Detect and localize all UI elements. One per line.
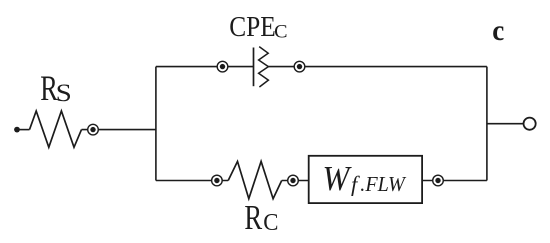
node bottom branch right [433, 175, 444, 186]
svg-text:C: C [274, 23, 287, 43]
wire right vertical branch join [486, 67, 488, 181]
capacitor CPEC zigzag plate [259, 47, 269, 87]
svg-text:C: C [263, 209, 278, 236]
wire top branch left [156, 66, 254, 68]
svg-text:S: S [56, 80, 72, 107]
node bottom branch middle [288, 175, 299, 186]
node bottom branch left [212, 175, 223, 186]
svg-text:CPE: CPE [229, 11, 276, 43]
label c subfigure [492, 15, 504, 47]
wire bottom branch left [156, 180, 228, 182]
wire input stub [20, 129, 30, 131]
capacitor CPEC left plate [253, 48, 255, 87]
wire top branch right [268, 66, 487, 68]
svg-text:W: W [323, 159, 352, 198]
input terminal dot [14, 127, 20, 133]
wire RS to left junction [82, 129, 156, 131]
resistor R1 RS zigzag [30, 111, 82, 147]
node after RS [88, 124, 99, 135]
label W f.FLW [323, 159, 407, 198]
Warburg element W box [309, 156, 422, 203]
svg-text:c: c [492, 15, 504, 47]
label RC [244, 198, 278, 237]
output terminal circle [524, 118, 536, 130]
svg-text:.FLW: .FLW [360, 172, 406, 196]
wire left vertical branch split [155, 67, 157, 181]
svg-text:R: R [244, 198, 262, 237]
wire RC to Warburg box [282, 180, 309, 182]
label CPEC [229, 11, 287, 43]
wire Warburg box to right junction [422, 180, 487, 182]
wire output [487, 123, 524, 125]
node top branch right [294, 61, 305, 72]
label RS [40, 68, 72, 108]
resistor R2 RC zigzag [228, 161, 282, 198]
node top branch left [217, 61, 228, 72]
